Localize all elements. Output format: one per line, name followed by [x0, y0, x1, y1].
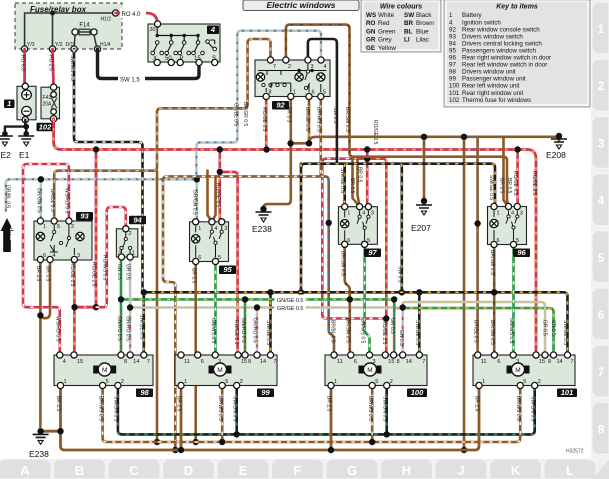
drivers window switch tag 93 — [76, 212, 93, 221]
svg-text:4: 4 — [362, 211, 365, 217]
100 terminal 6 — [348, 352, 354, 358]
99 terminal 1 — [178, 382, 184, 388]
junction BR/WS drop on BR2.5 bus — [172, 447, 178, 453]
junction BR2.5 bus 100 — [328, 447, 334, 453]
svg-text:Rear left window switch in doo: Rear left window switch in door — [462, 62, 547, 69]
junction RO/GE bus — [514, 146, 520, 152]
svg-text:BR 0.5: BR 0.5 — [357, 167, 363, 183]
wire GN/WS 0.5 switch 95 T5 to unit 99 T3 — [214, 262, 217, 357]
wire BR 0.5 switch 93 T6/T4 to ground E238 — [40, 259, 50, 427]
svg-text:BR/SW 0.5: BR/SW 0.5 — [345, 318, 351, 343]
ground E207 — [416, 205, 432, 208]
svg-text:92: 92 — [449, 26, 456, 33]
93 terminal 1 — [37, 218, 43, 224]
svg-text:4: 4 — [63, 359, 66, 365]
junction SW/GE bus left drop — [298, 289, 304, 295]
wire SW/GE 0.5 main bottom bus — [143, 292, 568, 355]
svg-text:SW/GN 0.5: SW/GN 0.5 — [231, 396, 237, 422]
bottom ruler tab G — [326, 459, 378, 479]
svg-text:2: 2 — [121, 379, 124, 385]
svg-text:BR/WS 0.5: BR/WS 0.5 — [367, 396, 373, 421]
99 terminal 7 — [267, 352, 273, 358]
junction SW/GN bus 99 — [234, 431, 240, 437]
svg-text:GN 0.5: GN 0.5 — [550, 320, 556, 336]
right ruler tab 3 — [592, 116, 609, 168]
svg-text:30: 30 — [150, 27, 156, 33]
100 terminal 2 — [384, 382, 390, 388]
96 terminal 1 — [491, 203, 497, 209]
svg-text:SW/GE 0.5: SW/GE 0.5 — [139, 314, 145, 339]
svg-text:SW/GN 0.5: SW/GN 0.5 — [381, 396, 387, 422]
fuse/relay box internal bus wire — [25, 13, 116, 49]
svg-text:95: 95 — [449, 47, 456, 54]
svg-text:L: L — [566, 463, 574, 478]
wire SW/GN 0.5 unit 99 T2 drop — [235, 386, 238, 435]
svg-text:B: B — [75, 463, 84, 478]
svg-text:5: 5 — [598, 251, 605, 265]
junction on internal bus — [50, 11, 55, 16]
svg-text:WS: WS — [366, 12, 376, 19]
ignition terminal S — [212, 59, 218, 65]
svg-text:BR/WS 0.5: BR/WS 0.5 — [217, 396, 223, 421]
svg-text:3: 3 — [371, 211, 374, 217]
junction RO feeds unit 100 — [383, 315, 389, 321]
wire BR stem to ground E207 — [423, 137, 426, 204]
wire SW/GE 0.5 bus to unit 99 T7 — [269, 292, 272, 356]
svg-text:GR/BL 0.5: GR/BL 0.5 — [233, 103, 239, 126]
thermo fuse tag 102 — [37, 123, 54, 132]
svg-text:3: 3 — [218, 359, 221, 365]
junction RO/GE 98/93 — [71, 304, 77, 310]
wire GN/GE 0.5 green bus — [121, 299, 554, 355]
93 terminal 2 — [66, 218, 72, 224]
wire RO/GE 0.5 bus to switch 96 T3 — [516, 150, 519, 207]
ground E238 middle — [256, 212, 272, 215]
svg-text:99: 99 — [261, 388, 270, 397]
svg-text:D/11: D/11 — [66, 42, 76, 48]
svg-text:3: 3 — [598, 136, 605, 150]
wire BR 0.5 arms to 97 T4 — [353, 157, 360, 207]
svg-text:GR: GR — [366, 37, 376, 44]
junction battery negative — [23, 124, 29, 130]
window switch 95 — [190, 222, 229, 262]
svg-text:100: 100 — [411, 388, 424, 397]
wire BR/SW 0.5 console 92 T2 to ground run — [286, 25, 350, 153]
wire from F14 to H1/4 — [94, 35, 97, 49]
svg-text:RO/GE 2.5: RO/GE 2.5 — [531, 171, 537, 196]
fuse F14 — [75, 31, 94, 33]
svg-text:2: 2 — [240, 379, 243, 385]
svg-text:93: 93 — [449, 33, 456, 40]
right ruler tab 6 — [592, 288, 609, 340]
junction bus to 99 T7 — [267, 289, 273, 295]
svg-text:15: 15 — [241, 359, 247, 365]
svg-text:SW 0.5: SW 0.5 — [332, 107, 338, 124]
97 terminal 4 — [357, 204, 363, 210]
svg-text:7: 7 — [598, 365, 605, 379]
svg-text:4: 4 — [449, 19, 453, 26]
right ruler tab 4 — [592, 174, 609, 226]
window unit tag 101 — [557, 389, 577, 398]
svg-text:A: A — [20, 463, 30, 478]
svg-text:Grey: Grey — [378, 37, 392, 44]
wire Y/2 internal — [52, 13, 54, 49]
92 terminal 4 — [318, 57, 324, 63]
junction green bus 100 — [391, 296, 397, 302]
92 terminal 7 — [267, 57, 273, 63]
svg-text:97: 97 — [449, 62, 456, 69]
svg-text:3: 3 — [311, 64, 314, 70]
junction BR ground run / 92 T1 — [287, 140, 293, 146]
svg-text:98: 98 — [140, 388, 149, 397]
wire BR/BL 0.5 from BR/WS run down to unit 100 T11 — [325, 176, 334, 358]
wire RO/GE 2.5 branch to unit 99 T15 — [220, 172, 238, 357]
junction at E238 middle — [260, 206, 266, 212]
svg-text:93: 93 — [80, 212, 89, 221]
wire BR/GR 0.5 console 92 T7 down to switch 93 T5 — [54, 39, 270, 221]
ignition terminal 30 — [155, 21, 161, 27]
svg-text:1: 1 — [598, 22, 605, 36]
junction grey bus 99 — [254, 304, 260, 310]
98 terminal 8 — [118, 352, 124, 358]
junction grey bus 100 — [400, 304, 406, 310]
junction SW drop on bus — [399, 289, 405, 295]
97 terminal 3 — [365, 204, 371, 210]
svg-text:2: 2 — [538, 379, 541, 385]
svg-text:1: 1 — [497, 211, 500, 217]
svg-text:3: 3 — [520, 211, 523, 217]
svg-text:RO/GE 0.5: RO/GE 0.5 — [69, 262, 75, 287]
svg-text:Lilac: Lilac — [416, 37, 429, 44]
svg-text:6: 6 — [354, 359, 357, 365]
bottom ruler tab K — [490, 459, 542, 479]
101 terminal 11 — [475, 352, 481, 358]
window unit tag 98 — [136, 389, 153, 398]
window unit tag 99 — [257, 389, 274, 398]
92 terminal 5 — [318, 93, 324, 99]
svg-text:F43: F43 — [43, 95, 52, 101]
svg-text:1: 1 — [334, 379, 337, 385]
svg-text:GN/WS 0.5: GN/WS 0.5 — [508, 318, 514, 344]
junction 93 browns join — [37, 312, 43, 318]
svg-text:8: 8 — [248, 359, 251, 365]
svg-text:8: 8 — [124, 359, 127, 365]
wire RO/GE 2.5 drop to unit 98 — [95, 150, 98, 308]
ground E208 — [551, 139, 567, 142]
svg-text:RO 4.0: RO 4.0 — [122, 12, 142, 18]
junction SW/GN bus 100 — [384, 431, 390, 437]
wire BR/WS 0.5 unit 100 T5 drop — [371, 386, 374, 443]
101 terminal 14 — [550, 352, 556, 358]
wire RO/GE 0.5 bus to switch 95 T3 — [219, 150, 222, 222]
svg-text:BR/SW 0.5: BR/SW 0.5 — [340, 251, 346, 276]
94 terminal 1 — [127, 254, 133, 260]
101 terminal 15 — [533, 352, 539, 358]
94 terminal 2 — [123, 226, 129, 232]
100 terminal 14 — [400, 352, 406, 358]
svg-text:5: 5 — [523, 379, 526, 385]
svg-text:5: 5 — [225, 379, 228, 385]
98 terminal 7 — [141, 352, 147, 358]
99 terminal 14 — [254, 352, 260, 358]
wire SW/GE 0.5 bus to unit 100 T7 — [418, 292, 421, 358]
svg-text:11: 11 — [337, 359, 343, 365]
svg-text:SW 1.5: SW 1.5 — [120, 78, 140, 84]
96 terminal 5 — [510, 241, 516, 247]
svg-text:GR/GE 0.5: GR/GE 0.5 — [277, 306, 303, 312]
fuse/relay box — [15, 3, 122, 49]
junction RO/GE bus — [263, 146, 269, 152]
svg-text:SW/GE 0.5: SW/GE 0.5 — [414, 320, 420, 345]
svg-text:102: 102 — [449, 97, 460, 104]
wire RO/GE main feed bus from thermo fuse — [54, 119, 536, 355]
junction ground run E207 stem — [421, 134, 427, 140]
svg-text:14: 14 — [557, 359, 563, 365]
svg-text:102: 102 — [39, 123, 52, 132]
93 terminal 3 — [71, 256, 77, 262]
svg-text:E238: E238 — [252, 224, 272, 234]
wire WS/RO 0.5 switch 93 T2 to unit 98 T4 — [23, 164, 69, 357]
right ruler tab 2 — [592, 59, 609, 111]
window unit 99 — [175, 355, 277, 386]
wire BR/WS 0.5 console 92 T5 left-down to bottom bus — [163, 96, 325, 450]
wire SW/GN 0.5 unit 100 T2 drop — [385, 386, 388, 435]
svg-text:BR 0.5: BR 0.5 — [45, 266, 51, 282]
connector arrow 4/K3 — [1, 218, 14, 252]
svg-text:BR/BL 0.5: BR/BL 0.5 — [330, 320, 336, 343]
wire GN/WS 0.5 switch 96 T5 to unit 101 T3 — [512, 245, 515, 355]
svg-text:K: K — [511, 463, 521, 478]
svg-text:2: 2 — [129, 231, 132, 237]
drivers central locking switch 94 — [116, 229, 137, 257]
junction grey bus 94/98 — [127, 304, 133, 310]
svg-text:M: M — [367, 367, 372, 374]
wire BR/SW 0.5 switch 96 T6 to unit 101 T6 — [493, 245, 496, 355]
svg-text:M: M — [217, 367, 222, 374]
wire BR 0.5 console 92 T1 to ground E238 — [264, 95, 291, 209]
svg-text:GR 0.5: GR 0.5 — [389, 318, 395, 334]
wire SW 0.5 drop to bus right — [400, 164, 403, 293]
svg-text:101: 101 — [449, 90, 460, 97]
ground E1 — [18, 136, 34, 139]
svg-text:H1/4: H1/4 — [100, 42, 111, 48]
svg-text:SW/WS 0.5: SW/WS 0.5 — [69, 55, 75, 81]
100 terminal 11 — [331, 352, 337, 358]
svg-text:Brown: Brown — [416, 20, 434, 27]
right ruler tab 1 — [592, 2, 609, 54]
window switch tag 95 — [219, 266, 236, 275]
svg-text:GR/BL 0.5: GR/BL 0.5 — [5, 185, 11, 208]
svg-text:Rear right window unit: Rear right window unit — [462, 90, 523, 97]
svg-text:15: 15 — [388, 359, 394, 365]
99 terminal 2 — [234, 382, 240, 388]
101 terminal 8 — [542, 352, 548, 358]
junction at E238 bottom — [37, 428, 43, 434]
svg-text:GN 0.5: GN 0.5 — [398, 330, 404, 346]
100 terminal 15 — [382, 352, 388, 358]
95 terminal 6 — [193, 258, 199, 264]
svg-text:Drivers window switch: Drivers window switch — [462, 33, 523, 40]
terminal D/11 — [71, 46, 77, 52]
svg-text:GN 0.5: GN 0.5 — [116, 264, 122, 280]
wire GN/RO 0.5 green bus to unit 100 T8 — [393, 299, 396, 358]
101 terminal 1 — [476, 382, 482, 388]
svg-text:3: 3 — [516, 359, 519, 365]
svg-text:7: 7 — [274, 359, 277, 365]
wire GN/WS 0.5 switch 97 T5 to unit 100 T3 — [365, 244, 370, 358]
window unit tag 100 — [407, 389, 427, 398]
right ruler tab 5 — [592, 231, 609, 283]
wire SW/GE 0.5 drop to bus left — [300, 164, 303, 293]
svg-text:97: 97 — [368, 248, 377, 257]
svg-text:BR/SW 0.5: BR/SW 0.5 — [489, 250, 495, 275]
svg-text:5: 5 — [57, 224, 60, 230]
wire GR/RO 0.5 grey bus to unit 100 T14 — [401, 308, 404, 359]
ignition switch 4 — [148, 24, 220, 62]
junction green bus 94/98 — [118, 296, 124, 302]
svg-text:Wire colours: Wire colours — [380, 4, 422, 11]
wire GR/BL 0.5 from connector 4/K3 to console 92 T4 — [6, 31, 321, 211]
svg-text:3: 3 — [373, 359, 376, 365]
central locking switch tag 94 — [129, 216, 146, 225]
wire BR 0.5 switch 95 T6 down — [194, 262, 197, 443]
wire SW/GN 0.5 bottom bus unit 98 T2 to 101 T2 — [118, 386, 535, 435]
ignition terminal P — [177, 59, 183, 65]
svg-text:BR 2.5: BR 2.5 — [474, 396, 480, 412]
svg-text:4: 4 — [324, 64, 327, 70]
svg-text:4/K3: 4/K3 — [8, 227, 15, 241]
window switch tag 97 — [364, 249, 381, 258]
svg-text:Drivers window unit: Drivers window unit — [462, 69, 516, 76]
wire GR/RO 0.5 grey bus to unit 98 T14 — [129, 308, 132, 357]
junction RO/GE bus — [93, 146, 99, 152]
ground E238 bottom — [33, 434, 49, 437]
92 terminal 8 — [263, 93, 269, 99]
svg-text:BR 0.5: BR 0.5 — [349, 178, 355, 194]
svg-text:GR/GN 0.5: GR/GN 0.5 — [36, 188, 42, 213]
svg-text:8: 8 — [397, 359, 400, 365]
92 internal contacts — [266, 71, 268, 75]
window switch 96 — [488, 207, 527, 245]
wire SW/WS 0.5 from D/11 down and right — [74, 49, 147, 292]
svg-text:BR 0.5: BR 0.5 — [35, 266, 41, 282]
window unit 101 — [473, 355, 575, 386]
svg-text:SW: SW — [404, 12, 414, 19]
98 terminal 5 — [100, 382, 106, 388]
97 terminal 6 — [342, 241, 348, 247]
console switch tag 92 — [272, 101, 289, 110]
svg-text:SW/GE 0.5: SW/GE 0.5 — [339, 168, 345, 193]
98 terminal 15 — [71, 352, 77, 358]
wire GN/RO 0.5 green bus to unit 98 T8 — [120, 299, 123, 356]
battery 1 — [17, 86, 36, 120]
wire BR/GE 0.5 console 92 T6 down to ground run — [308, 96, 311, 143]
99 terminal 11 — [178, 352, 184, 358]
svg-text:2: 2 — [71, 224, 74, 230]
junction GR/BL to 95 — [194, 176, 200, 182]
svg-text:1: 1 — [347, 211, 350, 217]
svg-text:7: 7 — [571, 359, 574, 365]
right ruler tab 7 — [592, 345, 609, 397]
svg-text:101: 101 — [561, 388, 574, 397]
svg-text:RO/GE 2.5: RO/GE 2.5 — [381, 320, 387, 345]
svg-text:GR/RO 0.5: GR/RO 0.5 — [252, 318, 258, 343]
junction at E208 — [556, 133, 562, 139]
93 terminal 5 — [51, 218, 57, 224]
wire BR/SW 0.5 switch 97 T6 to unit 100 T6 — [345, 244, 350, 358]
svg-text:GN/RO 0.5: GN/RO 0.5 — [240, 318, 246, 343]
svg-text:Y/3: Y/3 — [27, 42, 35, 48]
svg-text:Rear right window switch in do: Rear right window switch in door — [462, 55, 551, 62]
95 terminal 1 — [193, 219, 199, 225]
right tab band — [591, 0, 609, 461]
junction bus to 98 T7 — [141, 289, 147, 295]
svg-text:1: 1 — [7, 99, 11, 108]
svg-text:RO/GE 0.5: RO/GE 0.5 — [261, 107, 267, 132]
bottom ruler tab A — [0, 459, 51, 479]
legend: wire colours box — [361, 0, 441, 52]
junction BR2.5 98 T1 — [57, 428, 63, 434]
wire GN 0.5 switch 94 T3 to green bus — [120, 256, 123, 299]
ignition switch tag 4 — [207, 26, 219, 35]
wire SW/GE horizontal run to switches 96/97 — [301, 164, 495, 207]
svg-text:SW 0.5: SW 0.5 — [397, 266, 403, 283]
svg-text:5: 5 — [106, 379, 109, 385]
svg-text:Blue: Blue — [416, 28, 429, 35]
svg-text:GN: GN — [366, 28, 376, 35]
wire RO 6.0 battery to Y/3 — [23, 49, 26, 86]
junction BR2.5 bus 99 — [178, 447, 184, 453]
svg-text:H32572: H32572 — [566, 449, 584, 455]
99 terminal 5 — [219, 382, 225, 388]
100 terminal 1 — [328, 382, 334, 388]
junction 95 T6 on BR/WS bus — [193, 439, 199, 445]
svg-text:BR/SW 0.5: BR/SW 0.5 — [489, 320, 495, 345]
wire BR/BL 0.5 ground run to unit 101 T11 — [476, 137, 479, 355]
svg-text:5: 5 — [375, 379, 378, 385]
svg-text:1: 1 — [64, 379, 67, 385]
junction GR/BL to 93 — [38, 176, 44, 182]
bottom ruler tab B — [54, 459, 106, 479]
junction BR/WS bus 100 — [369, 439, 375, 445]
battery tag 1 — [4, 100, 15, 109]
svg-text:BR: BR — [404, 20, 414, 27]
junction on BR/BL near switch 97 — [326, 220, 332, 226]
svg-text:BR/GE 0.5: BR/GE 0.5 — [304, 107, 310, 131]
svg-text:92: 92 — [276, 101, 285, 110]
svg-text:Battery: Battery — [462, 12, 483, 19]
svg-text:GN/GE 0.5: GN/GE 0.5 — [277, 298, 303, 304]
svg-text:E2: E2 — [1, 150, 12, 160]
93 terminal 4 — [47, 256, 53, 262]
wire RO/WS 0.5 feed to switch 94 T2 — [96, 207, 126, 307]
wire RO 2.5 Y/2 to thermo fuse — [53, 49, 54, 87]
95 terminal 4 — [209, 219, 215, 225]
svg-text:11: 11 — [481, 359, 487, 365]
101 terminal 6 — [491, 352, 497, 358]
svg-text:Y/2: Y/2 — [55, 42, 63, 48]
svg-text:J: J — [457, 463, 464, 478]
99 terminal 3 — [212, 352, 218, 358]
svg-text:RO: RO — [366, 20, 376, 27]
svg-text:96: 96 — [449, 55, 456, 62]
svg-text:BR/WS 0.5: BR/WS 0.5 — [515, 396, 521, 421]
svg-text:BL: BL — [404, 28, 413, 35]
101 terminal 7 — [564, 352, 570, 358]
svg-text:11: 11 — [184, 359, 190, 365]
svg-text:BR/WS 0.5: BR/WS 0.5 — [97, 396, 103, 421]
93 terminal 6 — [37, 256, 43, 262]
